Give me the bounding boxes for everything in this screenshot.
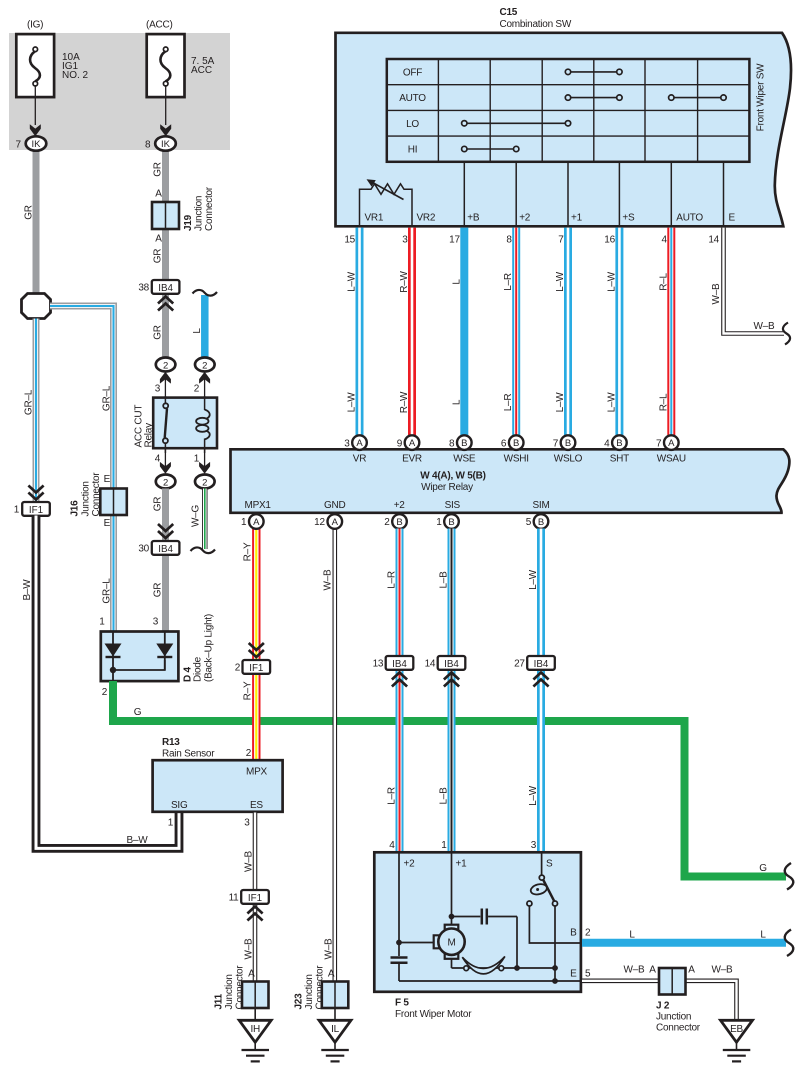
svg-text:+1: +1	[456, 859, 468, 870]
svg-text:GR–L: GR–L	[102, 578, 113, 604]
svg-text:A: A	[649, 965, 656, 976]
svg-text:Connector: Connector	[314, 965, 325, 1010]
svg-text:VR2: VR2	[417, 213, 436, 224]
junction connector J16	[70, 472, 127, 517]
pin 8 B (WSE)	[449, 435, 472, 450]
wire B-W from IF1 down and right to rain sensor SIG	[36, 516, 179, 849]
chevrons below 27 IB4	[533, 673, 548, 687]
svg-text:LO: LO	[406, 119, 419, 130]
svg-text:B: B	[461, 438, 467, 449]
switch common drop	[554, 906, 556, 981]
pin 5 B (SIM)	[526, 514, 549, 529]
power source gray area	[9, 33, 230, 150]
svg-text:IF1: IF1	[248, 893, 262, 904]
svg-text:1: 1	[14, 505, 20, 516]
svg-text:Junction: Junction	[224, 974, 235, 1009]
svg-text:13: 13	[373, 659, 384, 670]
svg-text:Diode: Diode	[193, 656, 204, 682]
park switch crescent	[462, 956, 505, 974]
svg-text:(ACC): (ACC)	[146, 20, 173, 31]
wire R-W (VR2 to EVR)	[408, 228, 416, 436]
arrow up into oval (pin 2)	[204, 378, 206, 396]
ground EB	[721, 1020, 753, 1061]
motor M	[434, 925, 465, 959]
svg-text:2: 2	[384, 517, 390, 528]
svg-text:E: E	[570, 969, 577, 980]
svg-text:L–W: L–W	[528, 569, 539, 590]
contact AUTO row (AUTO to E)	[669, 95, 727, 100]
svg-text:2: 2	[194, 384, 200, 395]
wire G from diode pin 2 across the page to right edge	[113, 681, 786, 877]
pin 12 A (GND)	[314, 514, 342, 529]
svg-text:OFF: OFF	[403, 68, 422, 79]
svg-text:L–W: L–W	[347, 392, 358, 413]
wire W-B from rain sensor ES to J11	[253, 813, 258, 982]
svg-text:L–R: L–R	[387, 571, 398, 589]
svg-text:Front Wiper SW: Front Wiper SW	[756, 63, 767, 131]
svg-text:A: A	[328, 969, 335, 980]
svg-text:C15: C15	[500, 7, 518, 18]
connector 11 IF1	[229, 890, 269, 904]
ground IL	[319, 1008, 351, 1061]
svg-text:17: 17	[449, 235, 460, 246]
S drop	[541, 853, 543, 875]
relay coil	[204, 396, 206, 410]
svg-text:R–Y: R–Y	[243, 542, 254, 561]
wire L-R (+2 pin to motor +2)	[396, 529, 404, 852]
svg-text:8: 8	[449, 438, 455, 449]
wire L-W (+1 to WSLO)	[564, 228, 572, 436]
variable resistor VR1-VR2	[360, 179, 413, 226]
capacitor 2 (bottom left)	[391, 956, 408, 959]
svg-text:14: 14	[425, 659, 436, 670]
svg-text:W–B: W–B	[244, 850, 255, 872]
svg-text:2: 2	[246, 748, 252, 759]
svg-text:F 5: F 5	[395, 998, 409, 1009]
connector 2 IF1	[235, 660, 270, 674]
svg-text:IF1: IF1	[249, 663, 263, 674]
torn-end squiggle of W-G wire	[191, 547, 216, 553]
svg-text:3: 3	[402, 235, 408, 246]
oval pin 2 (relay pin 4 bottom)	[156, 475, 176, 489]
svg-text:Connector: Connector	[235, 965, 246, 1010]
svg-text:L–W: L–W	[555, 392, 566, 413]
svg-text:B–W: B–W	[22, 579, 33, 601]
svg-text:VR: VR	[353, 454, 366, 465]
svg-text:A: A	[155, 189, 162, 200]
svg-text:W–B: W–B	[754, 321, 776, 332]
svg-text:5: 5	[526, 517, 532, 528]
svg-text:L–W: L–W	[606, 271, 617, 292]
wire GR-L from octagon right, down through J16 to diode pin 1	[50, 306, 114, 631]
svg-text:B–W: B–W	[127, 835, 149, 846]
wire W-B from motor E to J2 and EB ground	[582, 981, 737, 1019]
svg-text:GR–L: GR–L	[102, 385, 113, 411]
svg-text:L–R: L–R	[503, 394, 514, 412]
svg-text:G: G	[134, 707, 142, 718]
chevrons below 13 IB4	[392, 673, 407, 687]
svg-text:R13: R13	[162, 737, 180, 748]
contact HI row (+B to +2)	[462, 146, 519, 151]
connector pin 8 IK	[145, 136, 176, 150]
chevrons above 30 IB4	[158, 524, 173, 538]
svg-text:8: 8	[145, 140, 151, 151]
capacitor 1 (top)	[481, 909, 484, 925]
wire L-B (SIS pin to motor +1)	[448, 529, 456, 852]
ground IH	[239, 1008, 271, 1061]
svg-text:E: E	[104, 474, 111, 485]
svg-text:2: 2	[163, 360, 168, 371]
svg-text:J 2: J 2	[656, 1001, 670, 1012]
wire L (+B to WSE)	[460, 228, 468, 436]
wire W-B from wiper relay GND to J23	[332, 529, 337, 982]
svg-text:15: 15	[344, 235, 355, 246]
svg-text:7: 7	[16, 140, 22, 151]
connector pin 7 IK	[16, 136, 47, 150]
svg-text:+S: +S	[622, 213, 635, 224]
chevrons above 2 IF1	[249, 643, 264, 657]
svg-text:GR: GR	[24, 205, 35, 220]
contact OFF row (+1 to +S)	[565, 69, 622, 74]
bottom line to E	[399, 980, 581, 982]
svg-text:B: B	[565, 438, 571, 449]
svg-text:GND: GND	[324, 500, 346, 511]
svg-text:NO. 2: NO. 2	[62, 70, 89, 81]
C15 box with torn right edge	[336, 33, 792, 227]
junction connector J11	[214, 965, 269, 1010]
svg-text:3: 3	[244, 818, 250, 829]
svg-text:1: 1	[99, 617, 105, 628]
chevrons below 38 IB4	[158, 297, 173, 311]
junction connector J19	[152, 186, 215, 231]
oval pin 2 (relay pin 3 top)	[156, 358, 176, 372]
svg-text:+2: +2	[394, 500, 406, 511]
svg-text:5: 5	[585, 969, 591, 980]
svg-text:Connector: Connector	[91, 472, 102, 517]
wire GR from IK7 to octagon junction	[33, 150, 40, 294]
svg-text:L–B: L–B	[439, 571, 450, 589]
svg-text:Junction: Junction	[194, 196, 205, 231]
park switch contacts	[539, 875, 544, 880]
chevrons below 11 IF1	[247, 907, 262, 921]
svg-text:IB4: IB4	[392, 659, 407, 670]
contact LO row (+B to +1)	[462, 121, 571, 126]
svg-text:Rain Sensor: Rain Sensor	[162, 749, 215, 760]
svg-text:7: 7	[656, 438, 662, 449]
pin 4 B (SHT)	[604, 435, 627, 450]
svg-text:S: S	[546, 859, 553, 870]
oval pin 2 (relay pin 1 bottom)	[195, 475, 215, 489]
svg-text:WSHI: WSHI	[504, 454, 529, 465]
svg-text:6: 6	[501, 438, 507, 449]
svg-text:Junction: Junction	[81, 481, 92, 516]
+2 drop	[398, 853, 400, 943]
svg-text:HI: HI	[408, 145, 418, 156]
svg-text:GR: GR	[153, 249, 164, 264]
svg-text:A: A	[155, 234, 162, 245]
svg-text:38: 38	[138, 283, 149, 294]
svg-text:1: 1	[441, 840, 447, 851]
connector 1 IF1	[14, 502, 50, 516]
+2 to motor	[399, 942, 434, 944]
internal wires	[399, 853, 581, 981]
svg-text:9: 9	[397, 438, 403, 449]
svg-text:J11: J11	[214, 993, 225, 1009]
svg-text:W–B: W–B	[323, 569, 334, 591]
svg-text:Relay: Relay	[144, 423, 155, 448]
svg-text:L–W: L–W	[528, 785, 539, 806]
svg-text:B: B	[570, 928, 577, 939]
svg-text:L: L	[760, 930, 766, 941]
svg-text:VR1: VR1	[365, 213, 384, 224]
wire GR from oval to 30 IB4 and diode pin 3	[162, 489, 169, 632]
pin 1 A (MPX1)	[241, 514, 264, 529]
svg-text:L–R: L–R	[503, 273, 514, 291]
svg-text:J23: J23	[294, 993, 305, 1010]
wire L-W (SIM pin to motor S)	[537, 529, 545, 852]
motor bottom stub	[451, 958, 453, 968]
+1 drop	[451, 853, 453, 925]
capacitor 2 leads	[398, 943, 400, 957]
junction dots	[449, 914, 455, 920]
svg-text:27: 27	[514, 659, 525, 670]
svg-text:WSLO: WSLO	[554, 454, 583, 465]
svg-text:WSAU: WSAU	[657, 454, 686, 465]
svg-text:IB4: IB4	[158, 544, 173, 555]
diode 1	[112, 632, 114, 670]
svg-text:4: 4	[661, 235, 667, 246]
svg-text:14: 14	[708, 235, 719, 246]
front wiper switch table	[387, 59, 750, 162]
svg-text:L: L	[451, 399, 462, 405]
junction connector J2	[656, 968, 701, 1034]
svg-text:3: 3	[531, 840, 537, 851]
svg-text:+1: +1	[571, 213, 583, 224]
svg-text:7: 7	[553, 438, 559, 449]
svg-text:IF1: IF1	[29, 505, 43, 516]
diode 2	[164, 632, 166, 670]
svg-text:L: L	[451, 279, 462, 285]
arrow down from relay pin 4	[164, 449, 166, 467]
svg-text:1: 1	[168, 818, 174, 829]
svg-text:3: 3	[155, 384, 161, 395]
svg-text:M: M	[447, 938, 455, 949]
svg-text:L–W: L–W	[606, 392, 617, 413]
connector 27 IB4	[514, 656, 555, 670]
svg-text:MPX1: MPX1	[245, 500, 272, 511]
pin 1 B (SIS)	[436, 514, 459, 529]
svg-text:J19: J19	[183, 214, 194, 231]
svg-text:2: 2	[585, 928, 591, 939]
svg-text:A: A	[688, 965, 695, 976]
pin 9 A (EVR)	[397, 435, 420, 450]
pin 3 A (VR)	[344, 435, 367, 450]
svg-text:GR: GR	[153, 583, 164, 598]
svg-text:+2: +2	[404, 859, 416, 870]
svg-text:W–B: W–B	[324, 938, 335, 960]
svg-text:(Back–Up Light): (Back–Up Light)	[204, 614, 215, 682]
wire W-B (E, down then right to torn end)	[724, 228, 785, 334]
svg-text:+2: +2	[519, 213, 531, 224]
svg-text:IB4: IB4	[158, 283, 173, 294]
arrow down from relay pin 1	[204, 449, 206, 467]
svg-text:W–B: W–B	[244, 938, 255, 960]
svg-text:L–W: L–W	[555, 271, 566, 292]
svg-text:IL: IL	[331, 1024, 340, 1035]
relay switch contact	[164, 396, 166, 403]
svg-text:B: B	[396, 517, 402, 528]
svg-text:4: 4	[389, 840, 395, 851]
pin 7 A (WSAU)	[656, 435, 679, 450]
contact AUTO row (+1 to +S)	[565, 95, 622, 100]
svg-text:L: L	[629, 930, 635, 941]
pin 6 B (WSHI)	[501, 435, 524, 450]
wire L-W (VR1 to VR)	[356, 228, 364, 436]
svg-text:12: 12	[314, 517, 325, 528]
svg-text:W–B: W–B	[624, 965, 646, 976]
octagon junction	[22, 294, 51, 319]
svg-text:2: 2	[202, 360, 207, 371]
svg-text:E: E	[104, 518, 111, 529]
svg-text:B: B	[513, 438, 519, 449]
wire L-R (+2 to WSHI)	[512, 228, 520, 436]
front wiper motor F5	[374, 852, 581, 1020]
junction connector J23	[294, 965, 349, 1010]
svg-text:7: 7	[558, 235, 564, 246]
svg-text:2: 2	[163, 477, 168, 488]
ACC CUT relay	[134, 396, 218, 453]
svg-text:WSE: WSE	[453, 454, 476, 465]
svg-text:Connector: Connector	[656, 1023, 701, 1034]
svg-text:J16: J16	[70, 500, 81, 517]
svg-text:EB: EB	[730, 1024, 743, 1035]
svg-text:B: B	[538, 517, 544, 528]
svg-text:E: E	[729, 213, 736, 224]
continuation curl of W-B wire	[783, 323, 790, 345]
chevrons below 14 IB4	[444, 673, 459, 687]
wire W-G from relay pin 1 oval down to torn end	[202, 489, 207, 550]
svg-text:A: A	[356, 438, 363, 449]
svg-text:3: 3	[344, 438, 350, 449]
pin 2 B (+2)	[384, 514, 407, 529]
svg-text:2: 2	[235, 663, 241, 674]
arrow up into oval (pin 3)	[164, 378, 166, 396]
svg-text:11: 11	[229, 893, 240, 904]
svg-text:Connector: Connector	[204, 186, 215, 231]
junction dot and link	[110, 667, 116, 673]
svg-text:R–W: R–W	[399, 270, 410, 292]
svg-text:Junction: Junction	[656, 1012, 691, 1023]
svg-text:MPX: MPX	[246, 767, 268, 778]
wire GR-L from octagon bottom to IF1	[33, 319, 40, 502]
B branch	[529, 906, 581, 943]
svg-text:SHT: SHT	[610, 454, 629, 465]
svg-text:GR: GR	[153, 325, 164, 340]
svg-text:R–W: R–W	[399, 391, 410, 413]
svg-text:L: L	[192, 328, 203, 334]
wire GR from IK8 down to oval 2 (through J19 and IB4)	[162, 150, 169, 359]
connector 38 IB4	[138, 280, 179, 294]
svg-text:R–Y: R–Y	[243, 681, 254, 700]
svg-text:IK: IK	[161, 139, 171, 150]
svg-text:ES: ES	[250, 800, 263, 811]
svg-text:1: 1	[194, 454, 200, 465]
connector 13 IB4	[373, 656, 414, 670]
svg-text:ACC: ACC	[191, 65, 212, 76]
svg-text:A: A	[409, 438, 416, 449]
svg-text:L–R: L–R	[387, 787, 398, 805]
svg-text:A: A	[248, 969, 255, 980]
fuse ACC 7.5A	[146, 20, 215, 137]
wire R-L (AUTO to WSAU)	[667, 228, 675, 436]
svg-text:R–L: R–L	[658, 393, 669, 411]
svg-text:L–B: L–B	[439, 787, 450, 805]
park contact line	[452, 967, 556, 969]
svg-text:1: 1	[241, 517, 247, 528]
wiper relay W4(A) W5(B)	[231, 449, 790, 513]
svg-text:1: 1	[436, 517, 442, 528]
connector 14 IB4	[425, 656, 466, 670]
svg-text:(IG): (IG)	[27, 20, 43, 31]
svg-text:IB4: IB4	[534, 659, 549, 670]
combination switch C15	[336, 7, 792, 226]
svg-text:SIS: SIS	[445, 500, 461, 511]
svg-text:Front Wiper Motor: Front Wiper Motor	[395, 1009, 472, 1020]
svg-text:IH: IH	[250, 1024, 260, 1035]
svg-text:W 4(A), W 5(B): W 4(A), W 5(B)	[420, 471, 485, 482]
svg-text:GR–L: GR–L	[24, 389, 35, 415]
svg-text:W–G: W–G	[191, 505, 202, 528]
wire R-Y from wiper relay MPX1 to rain sensor MPX	[252, 529, 260, 760]
chevrons above IF1	[28, 486, 43, 500]
svg-text:G: G	[759, 863, 767, 874]
svg-text:SIM: SIM	[533, 500, 550, 511]
svg-text:A: A	[668, 438, 675, 449]
column drop wires inside C15	[464, 162, 723, 225]
fuse IG1 NO.2	[16, 20, 88, 137]
svg-text:Wiper Relay: Wiper Relay	[421, 482, 473, 493]
continuation curl of L wire	[785, 930, 794, 957]
wire L-W (+S to SHT)	[615, 228, 623, 436]
svg-text:4: 4	[155, 454, 161, 465]
svg-text:2: 2	[202, 477, 207, 488]
svg-text:30: 30	[138, 544, 149, 555]
svg-text:A: A	[253, 517, 260, 528]
rain sensor R13	[153, 737, 283, 812]
svg-text:8: 8	[506, 235, 512, 246]
connector 30 IB4	[138, 541, 179, 555]
svg-text:4: 4	[604, 438, 610, 449]
torn-end squiggle of L wire	[193, 290, 218, 296]
svg-text:GR: GR	[153, 162, 164, 177]
svg-text:IB4: IB4	[444, 659, 459, 670]
capacitor 1 leads	[452, 916, 481, 918]
svg-text:AUTO: AUTO	[676, 213, 703, 224]
svg-text:GR: GR	[153, 497, 164, 512]
svg-text:AUTO: AUTO	[399, 93, 426, 104]
wire L from motor B to right edge	[582, 939, 786, 947]
pin 7 B (WSLO)	[553, 435, 576, 450]
svg-text:L–W: L–W	[347, 271, 358, 292]
oval pin 2 (relay pin 2 top)	[195, 358, 215, 372]
svg-text:R–L: R–L	[658, 273, 669, 291]
svg-text:W–B: W–B	[712, 965, 734, 976]
svg-text:B: B	[448, 517, 454, 528]
svg-text:EVR: EVR	[402, 454, 422, 465]
svg-text:2: 2	[102, 687, 108, 698]
svg-text:16: 16	[604, 235, 615, 246]
continuation curl of G wire	[785, 863, 794, 890]
